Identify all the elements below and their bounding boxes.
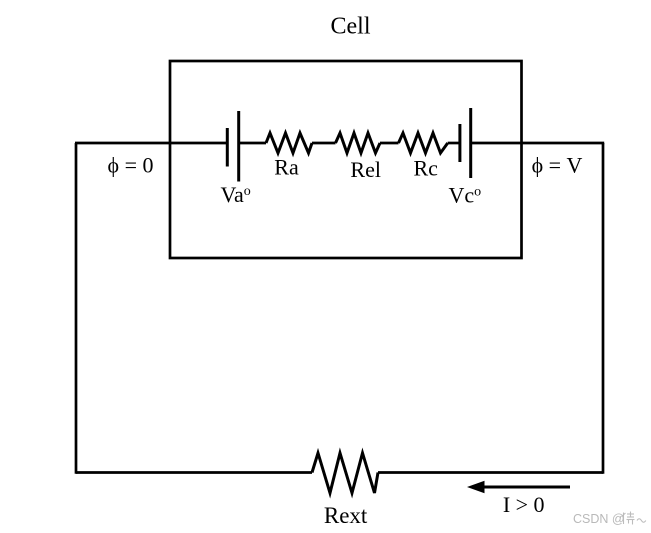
wire: battery Vc out of cell to right corner	[471, 142, 605, 145]
cell enclosure box	[170, 61, 522, 258]
battery Vc: short plate	[458, 124, 461, 162]
wire: left horizontal into cell to battery Va	[75, 142, 226, 145]
resistor Ra	[266, 133, 312, 153]
battery Va: short plate	[226, 128, 229, 167]
resistor Rext	[312, 453, 378, 493]
battery Vc: tall plate	[469, 108, 472, 178]
wire: left vertical	[75, 143, 78, 474]
resistor Rel	[336, 133, 381, 153]
svg-text:Rel: Rel	[350, 157, 381, 182]
wire: battery Va to resistor Ra	[239, 142, 266, 145]
wire: Ra to Rel	[312, 142, 336, 145]
svg-text:Rext: Rext	[324, 503, 368, 528]
current arrow head	[467, 481, 485, 493]
svg-text:Ra: Ra	[274, 155, 299, 180]
wire: Rel to Rc	[380, 142, 399, 145]
wire: bottom left to Rext	[76, 471, 312, 474]
svg-text:Vco: Vco	[449, 183, 482, 208]
svg-text:ϕ = 0: ϕ = 0	[108, 153, 154, 178]
wire: right vertical	[602, 143, 605, 474]
svg-text:Cell: Cell	[331, 14, 371, 40]
wire: Rext to bottom right	[378, 471, 603, 474]
resistor Rc	[399, 133, 448, 153]
svg-text:Rc: Rc	[413, 156, 438, 181]
svg-text:I > 0: I > 0	[503, 492, 545, 517]
wire: Rc to battery Vc	[448, 142, 459, 145]
watermark glyph	[622, 512, 646, 525]
svg-text:CSDN @: CSDN @	[573, 512, 625, 526]
svg-text:ϕ = V: ϕ = V	[532, 153, 583, 178]
svg-text:Vao: Vao	[221, 182, 251, 207]
battery Va: tall plate	[237, 111, 240, 182]
current arrow shaft	[480, 486, 570, 489]
